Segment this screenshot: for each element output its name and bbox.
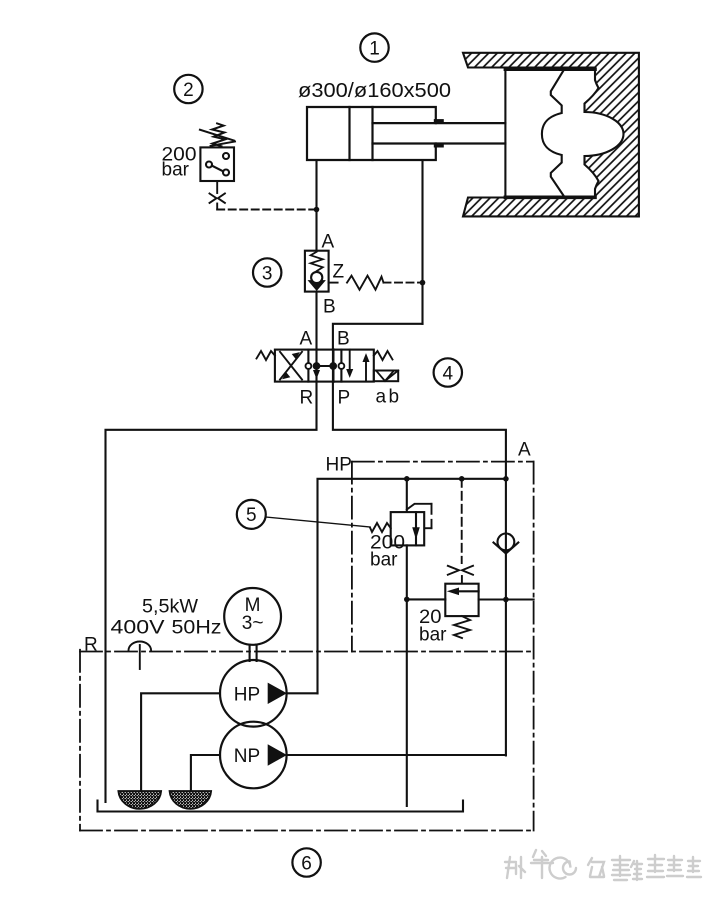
svg-text:3: 3 bbox=[262, 263, 273, 284]
200 bar label (switch) bbox=[162, 145, 197, 181]
V4 centre position bbox=[306, 350, 345, 382]
wire: R port to left drain bbox=[106, 382, 317, 802]
leader line balloon 5 bbox=[266, 517, 370, 527]
svg-text:bar: bar bbox=[162, 160, 190, 181]
counterbalance valve 20 bar bbox=[445, 584, 478, 616]
V4 right spring bbox=[374, 351, 393, 360]
svg-text:bar: bar bbox=[370, 550, 398, 571]
directional valve V4 body bbox=[275, 350, 374, 382]
closed test connection below switch bbox=[210, 181, 225, 210]
power unit enclosure (dash-dot) bbox=[80, 650, 534, 831]
HP pressure rail bbox=[318, 479, 506, 694]
svg-text:b: b bbox=[389, 387, 400, 408]
svg-text:A: A bbox=[518, 440, 531, 461]
motor labels bbox=[111, 597, 222, 639]
svg-text:5,5kW: 5,5kW bbox=[142, 597, 198, 618]
drain rail bbox=[407, 598, 534, 600]
pressure switch S1 bbox=[200, 147, 234, 181]
balloon 2 bbox=[174, 75, 202, 103]
watermark bbox=[505, 850, 701, 880]
pilot line to switch (dashed) bbox=[217, 209, 316, 211]
V4 right position arrows bbox=[347, 350, 369, 382]
svg-text:B: B bbox=[337, 329, 350, 350]
balloon 5 bbox=[237, 500, 266, 529]
svg-text:3~: 3~ bbox=[242, 613, 264, 634]
pump HP bbox=[220, 660, 287, 727]
balloon 3 bbox=[253, 258, 281, 286]
piston rod bbox=[373, 121, 506, 145]
svg-text:Z: Z bbox=[333, 262, 345, 283]
coupling bbox=[250, 645, 257, 661]
wire: right line to valve B port bbox=[333, 324, 423, 350]
wire: P port to A line bbox=[333, 382, 506, 756]
svg-text:a: a bbox=[376, 387, 387, 408]
svg-text:R: R bbox=[300, 388, 314, 409]
pilot operated check valve V3 bbox=[305, 251, 329, 292]
V4 left spring bbox=[257, 351, 275, 360]
20 bar label bbox=[419, 607, 447, 646]
svg-text:4: 4 bbox=[443, 363, 454, 384]
svg-text:bar: bar bbox=[419, 625, 447, 646]
NP suction wire bbox=[191, 755, 220, 791]
cylinder C1 bbox=[307, 107, 436, 160]
junction dot pilot/main bbox=[314, 207, 320, 213]
pump NP bbox=[220, 722, 287, 789]
junction dots on rail bbox=[404, 476, 410, 482]
svg-text:50Hz: 50Hz bbox=[172, 618, 222, 639]
V4 solenoid b bbox=[374, 371, 398, 382]
pressure switch S1 adjustable spring bbox=[200, 123, 235, 146]
relief valve 200 bar bbox=[391, 479, 432, 600]
wire: valve3 B to valve4 A bbox=[315, 292, 317, 350]
wire: cylinder right port down bbox=[421, 160, 423, 324]
svg-text:R: R bbox=[84, 635, 98, 656]
svg-text:P: P bbox=[338, 388, 351, 409]
svg-text:A: A bbox=[300, 329, 313, 350]
breather on enclosure bbox=[129, 642, 152, 670]
svg-text:B: B bbox=[323, 297, 336, 318]
svg-text:400V: 400V bbox=[111, 618, 165, 639]
strainer 1 bbox=[118, 791, 161, 809]
svg-text:5: 5 bbox=[246, 505, 257, 526]
mold punch bbox=[505, 69, 595, 197]
pilot spring line Z (valve3) bbox=[329, 276, 423, 290]
balloon 1 bbox=[360, 33, 388, 61]
svg-text:HP: HP bbox=[326, 455, 352, 476]
svg-text:ø300/ø160x500: ø300/ø160x500 bbox=[298, 80, 451, 102]
check valve bbox=[494, 534, 519, 554]
svg-text:HP: HP bbox=[234, 684, 260, 705]
mold block (hatched) bbox=[463, 53, 639, 217]
electric motor M bbox=[224, 588, 281, 645]
HP pump outlet wire bbox=[287, 692, 318, 694]
tank bbox=[98, 801, 464, 812]
20bar valve spring bbox=[454, 616, 470, 638]
drain to tank bbox=[406, 599, 408, 806]
pilot dashed line from rail bbox=[461, 479, 463, 563]
svg-text:A: A bbox=[322, 232, 335, 253]
junction dot Z pilot bbox=[420, 280, 426, 286]
svg-text:6: 6 bbox=[301, 853, 312, 874]
200 bar label (relief) bbox=[370, 533, 405, 571]
svg-text:NP: NP bbox=[234, 746, 260, 767]
strainer 2 bbox=[170, 791, 212, 809]
balloon 6 bbox=[292, 848, 320, 876]
svg-text:1: 1 bbox=[369, 38, 380, 59]
relief valve spring bbox=[370, 523, 391, 532]
HP suction wire bbox=[141, 693, 220, 791]
svg-text:2: 2 bbox=[183, 80, 194, 101]
wire: cylinder left port to valve V3 bbox=[315, 160, 317, 251]
NP pump outlet wire bbox=[287, 754, 506, 756]
V4 left position crossed arrows bbox=[280, 352, 302, 380]
balloon 4 bbox=[434, 358, 462, 386]
closed pilot port symbol bbox=[448, 566, 473, 575]
manifold enclosure (dash-dot) bbox=[352, 462, 534, 831]
